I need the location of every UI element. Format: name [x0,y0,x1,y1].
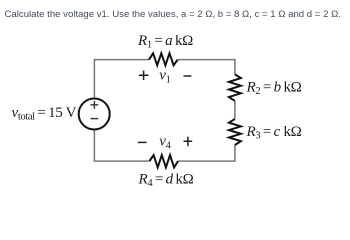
resistor R1 (zigzag, top wire) [149,53,178,65]
problem statement text [5,9,341,20]
v4 polarity plus sign [184,137,193,147]
svg-text:v4: v4 [159,134,171,152]
resistor R2 (zigzag, right side upper) [229,74,241,101]
svg-text:R1 = a kΩ: R1 = a kΩ [137,33,193,51]
wire: top-left segment [95,59,150,61]
wire: top-right segment [178,59,235,61]
resistor R3 (zigzag, right side lower) [229,119,241,145]
svg-text:v1: v1 [159,68,170,86]
v1 polarity plus sign [139,71,149,81]
resistor R4 (zigzag, bottom wire) [150,155,179,167]
voltage source circle vtotal [79,99,110,130]
wire: left side lower [93,130,95,162]
svg-text:R4 = d kΩ: R4 = d kΩ [138,172,194,190]
wire: right side upper [234,59,236,75]
wire: bottom-right segment [178,160,235,162]
wire: right side between R2 and R3 [234,101,236,119]
voltage source plus sign [91,101,99,109]
wire: bottom-left segment [95,160,150,162]
wire: left side upper [93,59,95,98]
svg-text:vtotal = 15 V: vtotal = 15 V [12,105,77,123]
v1 polarity minus sign [184,75,192,77]
svg-text:R2 = b kΩ: R2 = b kΩ [246,80,302,98]
wire: right side lower [234,145,236,162]
svg-text:R3 = c kΩ: R3 = c kΩ [246,124,302,142]
v4 polarity minus sign [138,141,147,143]
voltage source minus sign [91,118,99,120]
